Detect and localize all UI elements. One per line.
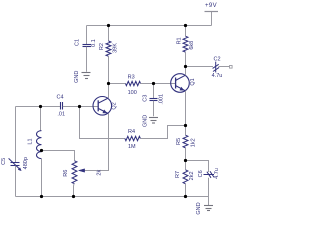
node dot R1/C2/Q1 collector bbox=[184, 65, 187, 68]
wire bottom rail bbox=[16, 196, 209, 198]
svg-text:.001: .001 bbox=[159, 94, 165, 105]
svg-text:R2: R2 bbox=[99, 43, 105, 50]
svg-text:1M: 1M bbox=[128, 144, 136, 150]
wire C2 left bbox=[186, 66, 214, 68]
wiper arrow into R6 bbox=[79, 169, 85, 172]
wire R2 bottom lead bbox=[108, 56, 110, 83]
svg-text:C6: C6 bbox=[198, 170, 204, 177]
node dot L1 bottom rail bbox=[40, 195, 43, 198]
node dot mid rail L1 bbox=[39, 105, 42, 108]
capacitor C1 bbox=[75, 39, 97, 47]
resistor R3 100 bbox=[126, 75, 141, 97]
capacitor C6 4.7u bbox=[198, 168, 220, 179]
node dot R3/C3/Q1 base bbox=[152, 82, 155, 85]
node dot L1 tap bbox=[40, 149, 43, 152]
svg-text:6k8: 6k8 bbox=[189, 41, 195, 50]
svg-text:+9V: +9V bbox=[205, 3, 217, 9]
svg-text:Q2: Q2 bbox=[112, 102, 118, 109]
svg-text:R7: R7 bbox=[175, 171, 181, 178]
wire C6 branch bbox=[186, 161, 209, 173]
wire C3 bottom lead bbox=[153, 101, 155, 116]
resistor R6 2k potentiometer bbox=[63, 161, 103, 184]
capacitor C3 .001 bbox=[143, 94, 165, 105]
svg-text:GND: GND bbox=[74, 71, 80, 83]
wire R1 top lead bbox=[185, 26, 187, 37]
wire mid rail left bbox=[16, 106, 61, 108]
node dot R7 bottom rail bbox=[184, 195, 187, 198]
inductor L1 bbox=[27, 131, 41, 159]
power +9V symbol bbox=[205, 3, 219, 26]
svg-text:4.7u: 4.7u bbox=[214, 168, 220, 179]
wire R3 right to Q1 base bbox=[141, 83, 176, 85]
capacitor C5 480p variable bbox=[1, 157, 29, 171]
svg-text:L1: L1 bbox=[27, 138, 33, 144]
wire L1 bottom lead bbox=[41, 159, 43, 197]
ground GND1 below C1 bbox=[74, 71, 91, 83]
wire Q1 emitter bbox=[185, 91, 187, 126]
capacitor C2 4.7u bbox=[212, 56, 223, 79]
svg-text:2k2: 2k2 bbox=[189, 171, 195, 180]
node dot R6 bottom rail bbox=[72, 195, 75, 198]
node dot mid rail Q2 base bbox=[78, 105, 81, 108]
svg-text:2k: 2k bbox=[97, 170, 103, 176]
svg-text:R1: R1 bbox=[176, 37, 182, 44]
wire mid rail right to Q2 base bbox=[63, 106, 98, 108]
resistor R7 2k2 bbox=[175, 170, 195, 184]
ground GND3 below C6 bbox=[196, 202, 213, 214]
wire Q2 emitter to wiper bbox=[84, 114, 108, 171]
resistor R1 6k8 bbox=[176, 36, 195, 52]
svg-text:GND: GND bbox=[142, 115, 148, 127]
port pad output bbox=[230, 66, 233, 69]
wire R1 bottom lead bbox=[185, 52, 187, 66]
wire Q2 collector bbox=[108, 84, 110, 99]
node dot R2/R3/Q2 collector bbox=[107, 82, 110, 85]
svg-text:C2: C2 bbox=[213, 56, 220, 62]
svg-text:Q1: Q1 bbox=[190, 78, 196, 85]
wire R5 bottom lead bbox=[185, 148, 187, 161]
wire R7 top lead bbox=[185, 161, 187, 170]
wire C1 top lead bbox=[86, 26, 88, 45]
svg-text:100: 100 bbox=[128, 90, 137, 96]
resistor R2 39K bbox=[99, 41, 119, 56]
wire R2 top lead bbox=[108, 26, 110, 42]
transistor Q1 bbox=[171, 74, 197, 93]
resistor R5 1k2 bbox=[176, 135, 196, 148]
wire R5 top lead bbox=[185, 126, 187, 136]
wire C1 bottom lead bbox=[86, 47, 88, 72]
node dot Q1 emitter R4/R5 bbox=[184, 124, 187, 127]
node wire R3 left bbox=[109, 83, 126, 85]
svg-text:480p: 480p bbox=[23, 157, 29, 169]
svg-text:0.1: 0.1 bbox=[91, 39, 97, 47]
wire R6 bottom lead bbox=[73, 184, 76, 197]
wire R7 bottom lead bbox=[185, 184, 187, 197]
capacitor C4 .01 bbox=[56, 95, 65, 118]
wire L1 top drop bbox=[40, 107, 42, 131]
svg-text:C5: C5 bbox=[1, 158, 7, 165]
node dot top rail R2 bbox=[107, 24, 110, 27]
wire R4 right to Q1 emitter node bbox=[140, 126, 185, 139]
wire top +9V rail bbox=[87, 25, 212, 27]
node dot R5/R7/C6 bbox=[184, 159, 187, 162]
svg-text:GND: GND bbox=[196, 202, 202, 214]
svg-text:R5: R5 bbox=[176, 138, 182, 145]
node dot top rail R1 bbox=[184, 24, 187, 27]
resistor R4 1M bbox=[125, 129, 140, 150]
wire C2 right bbox=[219, 66, 230, 68]
svg-text:.01: .01 bbox=[57, 111, 65, 117]
wire Q1 collector bbox=[185, 67, 187, 76]
transistor Q2 bbox=[93, 97, 118, 116]
svg-text:R4: R4 bbox=[128, 129, 135, 135]
svg-text:C3: C3 bbox=[143, 95, 149, 102]
svg-text:R6: R6 bbox=[63, 170, 69, 177]
wire C5 bottom lead bbox=[15, 166, 17, 197]
svg-text:39K: 39K bbox=[113, 43, 119, 53]
wire base node down to R4 bbox=[80, 107, 125, 139]
svg-text:4.7u: 4.7u bbox=[212, 73, 223, 79]
svg-text:C4: C4 bbox=[56, 95, 63, 101]
svg-text:R3: R3 bbox=[128, 75, 135, 81]
svg-text:C1: C1 bbox=[75, 39, 81, 46]
ground GND2 below C3 bbox=[142, 115, 158, 127]
wire C6 bottom to ground bbox=[208, 178, 210, 205]
svg-text:1k2: 1k2 bbox=[190, 138, 196, 147]
wire C3 top lead bbox=[153, 84, 155, 99]
wire L1 tap to R6 top bbox=[42, 151, 75, 161]
wire left vertical to C5 bbox=[15, 107, 17, 163]
